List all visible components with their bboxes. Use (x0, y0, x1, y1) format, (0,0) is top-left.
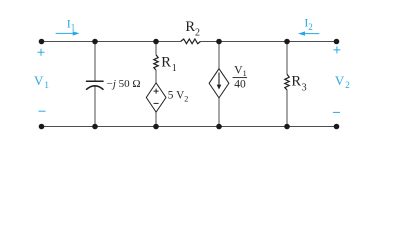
current I1 arrow (56, 32, 74, 34)
svg-text:1: 1 (243, 69, 247, 78)
svg-text:2: 2 (195, 27, 200, 38)
minus sign inside source U1 (154, 102, 159, 104)
node dot bottom at source branch (216, 124, 222, 130)
svg-text:40: 40 (234, 78, 246, 90)
wire R3 branch (286, 42, 288, 127)
node dot top at R1 branch (153, 39, 159, 45)
plus sign inside source U1 (154, 89, 159, 94)
capacitor C (-j50) curved plate (86, 86, 103, 90)
svg-text:5 V: 5 V (168, 90, 185, 102)
port 1 minus sign (39, 110, 46, 112)
port 2 minus sign (333, 111, 340, 113)
arrow inside source U2 (218, 73, 220, 86)
svg-text:V: V (34, 73, 44, 88)
svg-text:3: 3 (302, 82, 307, 93)
dependent voltage source U1 diamond (146, 83, 166, 112)
svg-text:1: 1 (44, 81, 49, 91)
svg-text:2: 2 (184, 94, 188, 103)
svg-text:R: R (161, 54, 171, 70)
dependent current source U2 diamond (209, 69, 229, 98)
resistor R1 (154, 55, 158, 70)
node dot bottom at R1 branch (153, 124, 159, 130)
port 2 plus sign (333, 46, 340, 53)
wire bottom rail (42, 126, 337, 128)
node dot bottom-right terminal (334, 124, 340, 130)
wire R1/source branch (155, 42, 157, 127)
port 1 plus sign (38, 49, 45, 56)
node dot top-left terminal (39, 39, 45, 45)
wire dependent source branch (218, 42, 220, 127)
svg-text:V: V (335, 73, 345, 88)
svg-text:R: R (291, 74, 301, 90)
svg-text:1: 1 (71, 23, 76, 33)
svg-text:2: 2 (308, 22, 313, 32)
node dot bottom-left terminal (39, 124, 45, 130)
node dot top-right terminal (334, 39, 340, 45)
wire capacitor branch (94, 42, 96, 127)
svg-text:1: 1 (172, 63, 177, 74)
svg-text:−j 50 Ω: −j 50 Ω (107, 78, 141, 90)
resistor R2 (181, 39, 201, 44)
node dot top at R3 branch (284, 39, 290, 45)
resistor R3 (285, 74, 289, 90)
svg-text:R: R (185, 19, 195, 35)
current I2 arrow (305, 33, 320, 35)
svg-text:2: 2 (345, 81, 350, 91)
node dot top at source branch (216, 39, 222, 45)
wire top rail (42, 41, 337, 43)
node dot bottom at capacitor branch (92, 124, 98, 130)
node dot bottom at R3 branch (284, 124, 290, 130)
capacitor C (-j50) top plate (86, 80, 104, 82)
node dot top at capacitor branch (92, 39, 98, 45)
